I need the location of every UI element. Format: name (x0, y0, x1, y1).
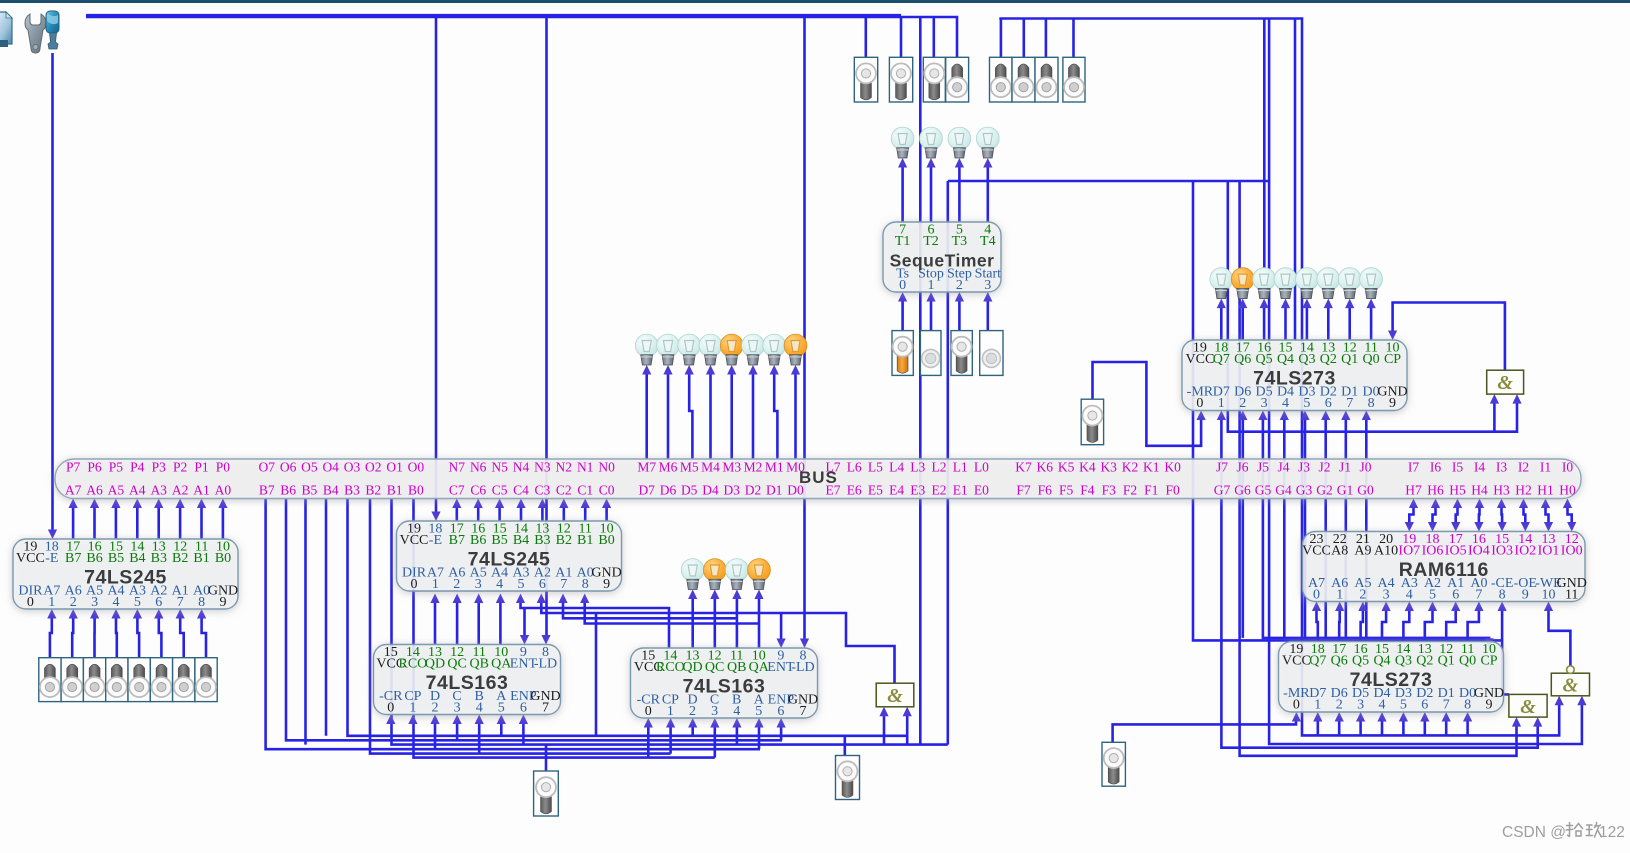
svg-text:E2: E2 (932, 483, 947, 498)
arrow into U8 pin4 D4 (1377, 712, 1386, 722)
svg-text:A8: A8 (1331, 544, 1348, 559)
svg-text:Q3: Q3 (1395, 654, 1412, 669)
svg-text:6: 6 (539, 577, 546, 592)
svg-text:2: 2 (1359, 588, 1366, 603)
svg-text:IO5: IO5 (1445, 544, 1467, 559)
bulb M2 (742, 334, 765, 365)
svg-text:VCC: VCC (1302, 544, 1331, 559)
svg-text:VCC: VCC (400, 533, 429, 548)
bulb M0 (lit) (784, 334, 807, 365)
and gate G3 (bottom right) (1509, 694, 1547, 717)
wire riser to U4 input (669, 725, 672, 754)
svg-text:P0: P0 (216, 460, 231, 475)
svg-text:IO4: IO4 (1468, 544, 1490, 559)
chip U7 RAM6116 (1302, 532, 1587, 603)
switch SW-MR2 (1102, 742, 1125, 786)
svg-text:C5: C5 (492, 483, 508, 498)
svg-text:B6: B6 (86, 551, 102, 566)
wire H2 vertical x1295 to U6 (1294, 19, 1297, 341)
wire long vertical x920 H1 to AND-B net (919, 17, 922, 745)
arrow into AND-D input2 (1577, 696, 1586, 706)
arrow into AND-A input2 (1512, 394, 1521, 404)
arrow into RAM pin7 A0 (1474, 602, 1483, 612)
svg-text:M1: M1 (765, 460, 784, 475)
wire U8 Q0 to RAM A0 (1468, 608, 1479, 642)
wire U8 Q1 to RAM A1 (1446, 608, 1456, 642)
arrow into BUS H3 (1497, 499, 1506, 509)
svg-text:3: 3 (984, 278, 991, 293)
toolbar icon document (partial) (0, 12, 12, 47)
wire rail y613 AND-B output net (541, 600, 894, 683)
wire U2 B3 to BUS C3 (541, 505, 544, 521)
arrow into U3 pin0 -CR (386, 715, 395, 725)
wire U8 Q6 to RAM A6 (1338, 608, 1341, 642)
arrow into AND-D input1 (1555, 696, 1564, 706)
svg-text:M3: M3 (722, 460, 741, 475)
svg-text:74LS163: 74LS163 (683, 676, 766, 698)
wire BUS B4 column (325, 499, 328, 736)
svg-text:G4: G4 (1275, 483, 1292, 498)
switch SW-CP (534, 771, 559, 816)
svg-text:Q1: Q1 (1438, 654, 1455, 669)
svg-text:74LS273: 74LS273 (1253, 368, 1336, 390)
wire U3 output to U2 input (499, 600, 502, 645)
svg-text:B1: B1 (193, 551, 209, 566)
svg-text:G7: G7 (1214, 483, 1231, 498)
svg-text:7: 7 (542, 701, 549, 716)
wire U6 Q1 to bulb Q1 (1348, 305, 1351, 340)
svg-text:0: 0 (645, 704, 652, 719)
wire U1 B3 to BUS A3 (157, 505, 160, 539)
chip U6 74LS273 (top right register) (1182, 340, 1408, 411)
svg-text:1: 1 (1314, 698, 1321, 713)
and gate G1 (top right) (1487, 370, 1524, 394)
arrow into BUS A3 (154, 499, 163, 509)
arrow into U4 input pin (710, 718, 719, 728)
arrow into bulb Q3 (1302, 299, 1311, 309)
wire H2 drop to switch SW-F (1022, 19, 1025, 58)
wire AND-B input1 riser (883, 713, 886, 744)
wire BUS H7 to RAM IO7 (1409, 505, 1413, 525)
wire riser to U4 input (691, 725, 694, 736)
svg-text:IO0: IO0 (1561, 544, 1583, 559)
wire BUS M2 to bulb M2 (752, 372, 755, 460)
svg-text:1: 1 (667, 704, 674, 719)
wire H1 drop to switch SW-B (900, 17, 903, 57)
switch data input bit 3 (128, 658, 150, 702)
arrow into U1 pin2 A6 (69, 609, 78, 619)
arrow into RAM pin0 A7 (1312, 602, 1321, 612)
wire rail y618 U4 QB to U2 A1 (563, 600, 737, 618)
svg-text:8: 8 (1368, 396, 1375, 411)
svg-text:&: & (1497, 372, 1513, 394)
arrow into U3 pin8 -LD (541, 635, 550, 645)
arrow into U6 pin7 D1 (1341, 411, 1350, 421)
arrow into BUS C3 (538, 499, 547, 509)
wire riser to U8 D0 (1466, 718, 1469, 735)
svg-text:K2: K2 (1122, 460, 1139, 475)
svg-text:5: 5 (1303, 396, 1310, 411)
wire BUS B5 column (304, 499, 307, 745)
wire H1 to U3 -LD (545, 17, 548, 638)
switch SW-EN (836, 756, 860, 800)
arrow into U2 input pin (496, 594, 505, 604)
wire BUS J0 column (1365, 417, 1368, 638)
wire U8 Q5 to RAM A5 (1361, 608, 1363, 642)
svg-text:M7: M7 (637, 460, 656, 475)
svg-text:K1: K1 (1143, 460, 1160, 475)
arrow into U5 pin 3 (983, 292, 992, 302)
wire BUS M1 to bulb M1 (774, 372, 777, 460)
svg-text:O5: O5 (301, 460, 318, 475)
svg-text:G2: G2 (1316, 483, 1333, 498)
wire BUS J5 column to U8 CP (1263, 417, 1489, 641)
switch data input bit 4 (106, 658, 128, 702)
svg-text:H4: H4 (1471, 483, 1488, 498)
wire U2 B0 to BUS C0 (605, 505, 608, 521)
wire BUS B2 column rail y753 (370, 499, 671, 754)
svg-text:F7: F7 (1016, 483, 1031, 498)
wire y613 branch down x596 (595, 613, 598, 736)
arrow into bulb Q7 (1217, 299, 1226, 309)
arrow into U1 pin18 -E (48, 530, 57, 540)
svg-text:8: 8 (582, 577, 589, 592)
svg-text:5: 5 (755, 704, 762, 719)
svg-text:Q1: Q1 (1341, 352, 1358, 367)
svg-text:D7: D7 (638, 483, 655, 498)
svg-text:4: 4 (476, 701, 483, 716)
svg-text:E0: E0 (974, 483, 989, 498)
svg-text:QD: QD (682, 660, 702, 675)
svg-text:6: 6 (520, 701, 527, 716)
svg-text:IO7: IO7 (1398, 544, 1420, 559)
svg-text:QC: QC (447, 657, 466, 672)
svg-text:N0: N0 (598, 460, 615, 475)
wire BUS B7 column rail y749 (266, 499, 760, 750)
arrow into RAM IO6 (1428, 522, 1437, 532)
svg-text:B1: B1 (387, 483, 403, 498)
wire U8 Q3 to RAM A3 (1403, 608, 1409, 642)
svg-text:I1: I1 (1540, 460, 1551, 475)
wire y608 branch to U3 ENT (523, 608, 526, 638)
wire switch to U1 A6 (72, 616, 73, 658)
wire U6 Q5 to bulb Q5 (1263, 305, 1266, 340)
arrow into U6 pin4 D4 (1280, 411, 1289, 421)
wire switch to U5 input 1 (930, 299, 933, 331)
svg-text:IO1: IO1 (1538, 544, 1560, 559)
svg-text:G6: G6 (1234, 483, 1251, 498)
svg-text:G1: G1 (1337, 483, 1354, 498)
svg-text:M2: M2 (744, 460, 763, 475)
wire U4 output to bulb (736, 596, 739, 648)
svg-text:A5: A5 (108, 483, 125, 498)
svg-text:7: 7 (1443, 698, 1450, 713)
chip U1 74LS245 (input register left) (13, 539, 238, 610)
chip U2 74LS245 (PC output buffer) (397, 521, 622, 592)
wire H1 drop to switch SW-A (864, 17, 867, 57)
wire riser to U3 input (456, 721, 459, 740)
svg-text:5: 5 (1429, 588, 1436, 603)
wire y181 corner down x947 to AND-B net (946, 181, 949, 745)
svg-text:K0: K0 (1164, 460, 1181, 475)
wire U1 B5 to BUS A5 (115, 505, 118, 539)
svg-text:4: 4 (1282, 396, 1289, 411)
svg-text:-E: -E (429, 533, 442, 548)
svg-text:M6: M6 (659, 460, 678, 475)
arrow into RAM IO3 (1498, 522, 1507, 532)
arrow into bulb T2 (926, 158, 935, 168)
arrow into RAM IO0 (1567, 522, 1576, 532)
arrow into U1 pin3 A5 (90, 609, 99, 619)
wire BUS M4 to bulb M4 (709, 372, 712, 460)
bulb Q5 (1253, 268, 1276, 299)
svg-text:RAM6116: RAM6116 (1399, 559, 1489, 581)
wire top rail H1 to switch SW-D (86, 17, 957, 57)
svg-text:9: 9 (1389, 396, 1396, 411)
switch data input bit 0 (195, 658, 217, 702)
svg-text:O2: O2 (365, 460, 382, 475)
svg-text:10: 10 (1542, 588, 1556, 603)
svg-text:L1: L1 (953, 460, 968, 475)
arrow into RAM IO4 (1474, 522, 1483, 532)
svg-text:VCC: VCC (16, 551, 45, 566)
chip U8 74LS273 (MAR register) (1279, 642, 1505, 713)
switch data input bit 5 (83, 658, 105, 702)
bulb T3 (948, 127, 971, 158)
svg-text:Q6: Q6 (1234, 352, 1251, 367)
svg-text:A1: A1 (193, 483, 210, 498)
wire BUS H1 to RAM IO1 (1546, 505, 1549, 525)
svg-text:74LS273: 74LS273 (1350, 669, 1433, 691)
svg-text:B2: B2 (556, 533, 572, 548)
wire H2 vertical x1264 to bulb Q5 (1263, 19, 1266, 272)
svg-text:3: 3 (1261, 396, 1268, 411)
svg-text:5: 5 (498, 701, 505, 716)
svg-text:0: 0 (27, 595, 34, 610)
svg-text:BUS: BUS (799, 468, 838, 487)
svg-text:T2: T2 (923, 234, 939, 249)
arrow into U3 input pin (430, 715, 439, 725)
switch control SW-E (990, 57, 1013, 102)
arrow into bulb M1 (770, 365, 779, 375)
wire x1227 to AND-A input2 (1228, 181, 1517, 432)
svg-text:1: 1 (1218, 396, 1225, 411)
svg-text:9: 9 (1486, 698, 1493, 713)
arrow into BUS C4 (516, 499, 525, 509)
wire U3 output to U2 input (434, 600, 437, 645)
svg-text:122: 122 (1599, 824, 1625, 841)
arrow into U5 pin 2 (955, 292, 964, 302)
svg-text:C1: C1 (577, 483, 593, 498)
arrow into U2 pin6 A2 (537, 594, 546, 604)
svg-text:P3: P3 (152, 460, 167, 475)
wire U3 output to U2 input (477, 600, 480, 645)
svg-text:F2: F2 (1123, 483, 1137, 498)
svg-text:P4: P4 (130, 460, 145, 475)
bulb M3 (lit) (720, 334, 743, 365)
arrow into BUS A0 (218, 499, 227, 509)
wire H2 vertical x1269 to AND-D input2 (1269, 19, 1582, 745)
svg-text:M4: M4 (701, 460, 720, 475)
svg-text:F3: F3 (1102, 483, 1117, 498)
svg-text:B0: B0 (215, 551, 231, 566)
svg-text:A3: A3 (150, 483, 167, 498)
arrow into bulb Q0 (1367, 299, 1376, 309)
arrow into U1 pin6 A2 (154, 609, 163, 619)
svg-text:P7: P7 (66, 460, 81, 475)
arrow into U1 pin5 A3 (133, 609, 142, 619)
svg-text:IO3: IO3 (1491, 544, 1513, 559)
svg-text:QD: QD (425, 657, 445, 672)
svg-text:K7: K7 (1015, 460, 1032, 475)
svg-text:8: 8 (198, 595, 205, 610)
wire H1 drop to switch SW-C (932, 17, 935, 57)
arrow into bulb M4 (706, 365, 715, 375)
arrow into BUS H6 (1431, 499, 1440, 509)
svg-text:3: 3 (1383, 588, 1390, 603)
wire BUS H6 to RAM IO6 (1433, 505, 1436, 525)
arrow into U6 pin1 D7 (1217, 411, 1226, 421)
wire switch to U5 input 3 (986, 299, 989, 331)
svg-text:F4: F4 (1080, 483, 1095, 498)
wire BUS J4 column (1283, 417, 1286, 638)
wire AND-A output to U6 CP (1393, 303, 1505, 371)
arrow into U2 input pin (474, 594, 483, 604)
wire riser to U8 D1 (1445, 718, 1448, 735)
arrow into bulb (732, 590, 741, 600)
svg-text:B0: B0 (408, 483, 424, 498)
svg-text:O7: O7 (259, 460, 276, 475)
arrow into U3 input pin (497, 715, 506, 725)
svg-text:9: 9 (220, 595, 227, 610)
svg-text:B4: B4 (129, 551, 145, 566)
arrow into RAM pin1 A6 (1335, 602, 1344, 612)
wire U4 output to bulb (758, 596, 761, 648)
wire BUS J6 column (1242, 417, 1245, 638)
arrow into U4 input pin (666, 718, 675, 728)
svg-text:3: 3 (1357, 698, 1364, 713)
wire BUS J1 column (1345, 417, 1348, 638)
svg-text:6: 6 (155, 595, 162, 610)
svg-text:E5: E5 (868, 483, 883, 498)
svg-text:I7: I7 (1408, 460, 1419, 475)
arrow into AND-B input2 (903, 707, 912, 717)
svg-text:E6: E6 (847, 483, 862, 498)
button Start (980, 331, 1003, 376)
bulb Q6 (lit) (1231, 268, 1254, 299)
svg-text:L4: L4 (889, 460, 904, 475)
svg-text:B5: B5 (302, 483, 318, 498)
svg-text:I4: I4 (1474, 460, 1485, 475)
svg-text:L3: L3 (910, 460, 925, 475)
svg-text:P5: P5 (109, 460, 124, 475)
svg-text:B3: B3 (534, 533, 550, 548)
arrow into AND-B input1 (879, 707, 888, 717)
wire switch to U1 A4 (115, 616, 118, 658)
wire U6 Q6 to bulb Q6 (1241, 305, 1244, 340)
wire U8 Q2 to RAM A2 (1425, 608, 1433, 642)
arrow into U5 pin 1 (926, 292, 935, 302)
wire U6 Q2 to bulb Q2 (1327, 305, 1330, 340)
svg-text:CSDN @: CSDN @ (1502, 824, 1566, 841)
bulb M5 (678, 334, 701, 365)
arrow into BUS A2 (176, 499, 185, 509)
arrow into RAM pin5 A2 (1428, 602, 1437, 612)
svg-text:5: 5 (1400, 698, 1407, 713)
arrow into U6 pin8 D0 (1362, 411, 1371, 421)
svg-text:C7: C7 (449, 483, 465, 498)
arrow into U8 pin6 D2 (1420, 712, 1429, 722)
svg-text:2: 2 (453, 577, 460, 592)
svg-text:J3: J3 (1298, 460, 1310, 475)
svg-text:Q2: Q2 (1320, 352, 1337, 367)
svg-text:1: 1 (432, 577, 439, 592)
svg-text:RCO: RCO (399, 657, 428, 672)
svg-text:A7: A7 (65, 483, 82, 498)
svg-text:H0: H0 (1559, 483, 1576, 498)
svg-text:J5: J5 (1257, 460, 1269, 475)
svg-text:B1: B1 (577, 533, 593, 548)
svg-text:H1: H1 (1537, 483, 1554, 498)
svg-text:I5: I5 (1452, 460, 1463, 475)
arrow into BUS C5 (495, 499, 504, 509)
svg-text:Q6: Q6 (1331, 654, 1348, 669)
arrow into BUS A7 (69, 499, 78, 509)
wire switch to U5 input 2 (958, 299, 961, 331)
arrow into U4 input pin (688, 718, 697, 728)
wire switch to U1 A1 (180, 616, 184, 658)
svg-text:C4: C4 (513, 483, 529, 498)
switch control SW-A (854, 57, 877, 102)
switch control SW-D (946, 57, 969, 102)
svg-text:4: 4 (1379, 698, 1386, 713)
chip U3 74LS163 (counter high) (374, 645, 561, 716)
svg-text:8: 8 (1499, 588, 1506, 603)
svg-text:&: & (887, 685, 903, 707)
svg-text:1: 1 (48, 595, 55, 610)
wire U2 B2 to BUS C2 (562, 505, 565, 521)
wire H1 to U2 -E (435, 17, 438, 515)
svg-text:A10: A10 (1374, 544, 1398, 559)
svg-text:11: 11 (1565, 588, 1578, 603)
arrow into bulb (754, 590, 763, 600)
wire U2 B7 to BUS C7 (455, 505, 458, 521)
svg-text:E1: E1 (953, 483, 968, 498)
watermark (1502, 823, 1625, 842)
arrow into bulb M2 (748, 365, 757, 375)
svg-text:P6: P6 (87, 460, 102, 475)
arrow into U8 pin10 CP (1485, 638, 1494, 648)
arrow into U1 pin7 A1 (176, 609, 185, 619)
svg-text:K5: K5 (1058, 460, 1075, 475)
arrow into BUS A1 (197, 499, 206, 509)
wire riser to U3 input (522, 721, 525, 745)
svg-text:G5: G5 (1255, 483, 1272, 498)
arrow into U2 pin8 A0 (580, 594, 589, 604)
svg-text:RCO: RCO (656, 660, 685, 675)
arrow into BUS H0 (1563, 499, 1572, 509)
wire U5 T2 to bulb T2 (930, 165, 933, 223)
svg-text:A0: A0 (215, 483, 232, 498)
wire riser to U8 D5 (1359, 718, 1362, 735)
svg-text:IO2: IO2 (1514, 544, 1536, 559)
svg-text:2: 2 (689, 704, 696, 719)
wire BUS B3 column rail y735 (348, 499, 908, 736)
svg-text:8: 8 (1464, 698, 1471, 713)
wire riser to U8 D3 (1402, 718, 1405, 735)
svg-text:-E: -E (45, 551, 58, 566)
svg-text:6: 6 (1452, 588, 1459, 603)
